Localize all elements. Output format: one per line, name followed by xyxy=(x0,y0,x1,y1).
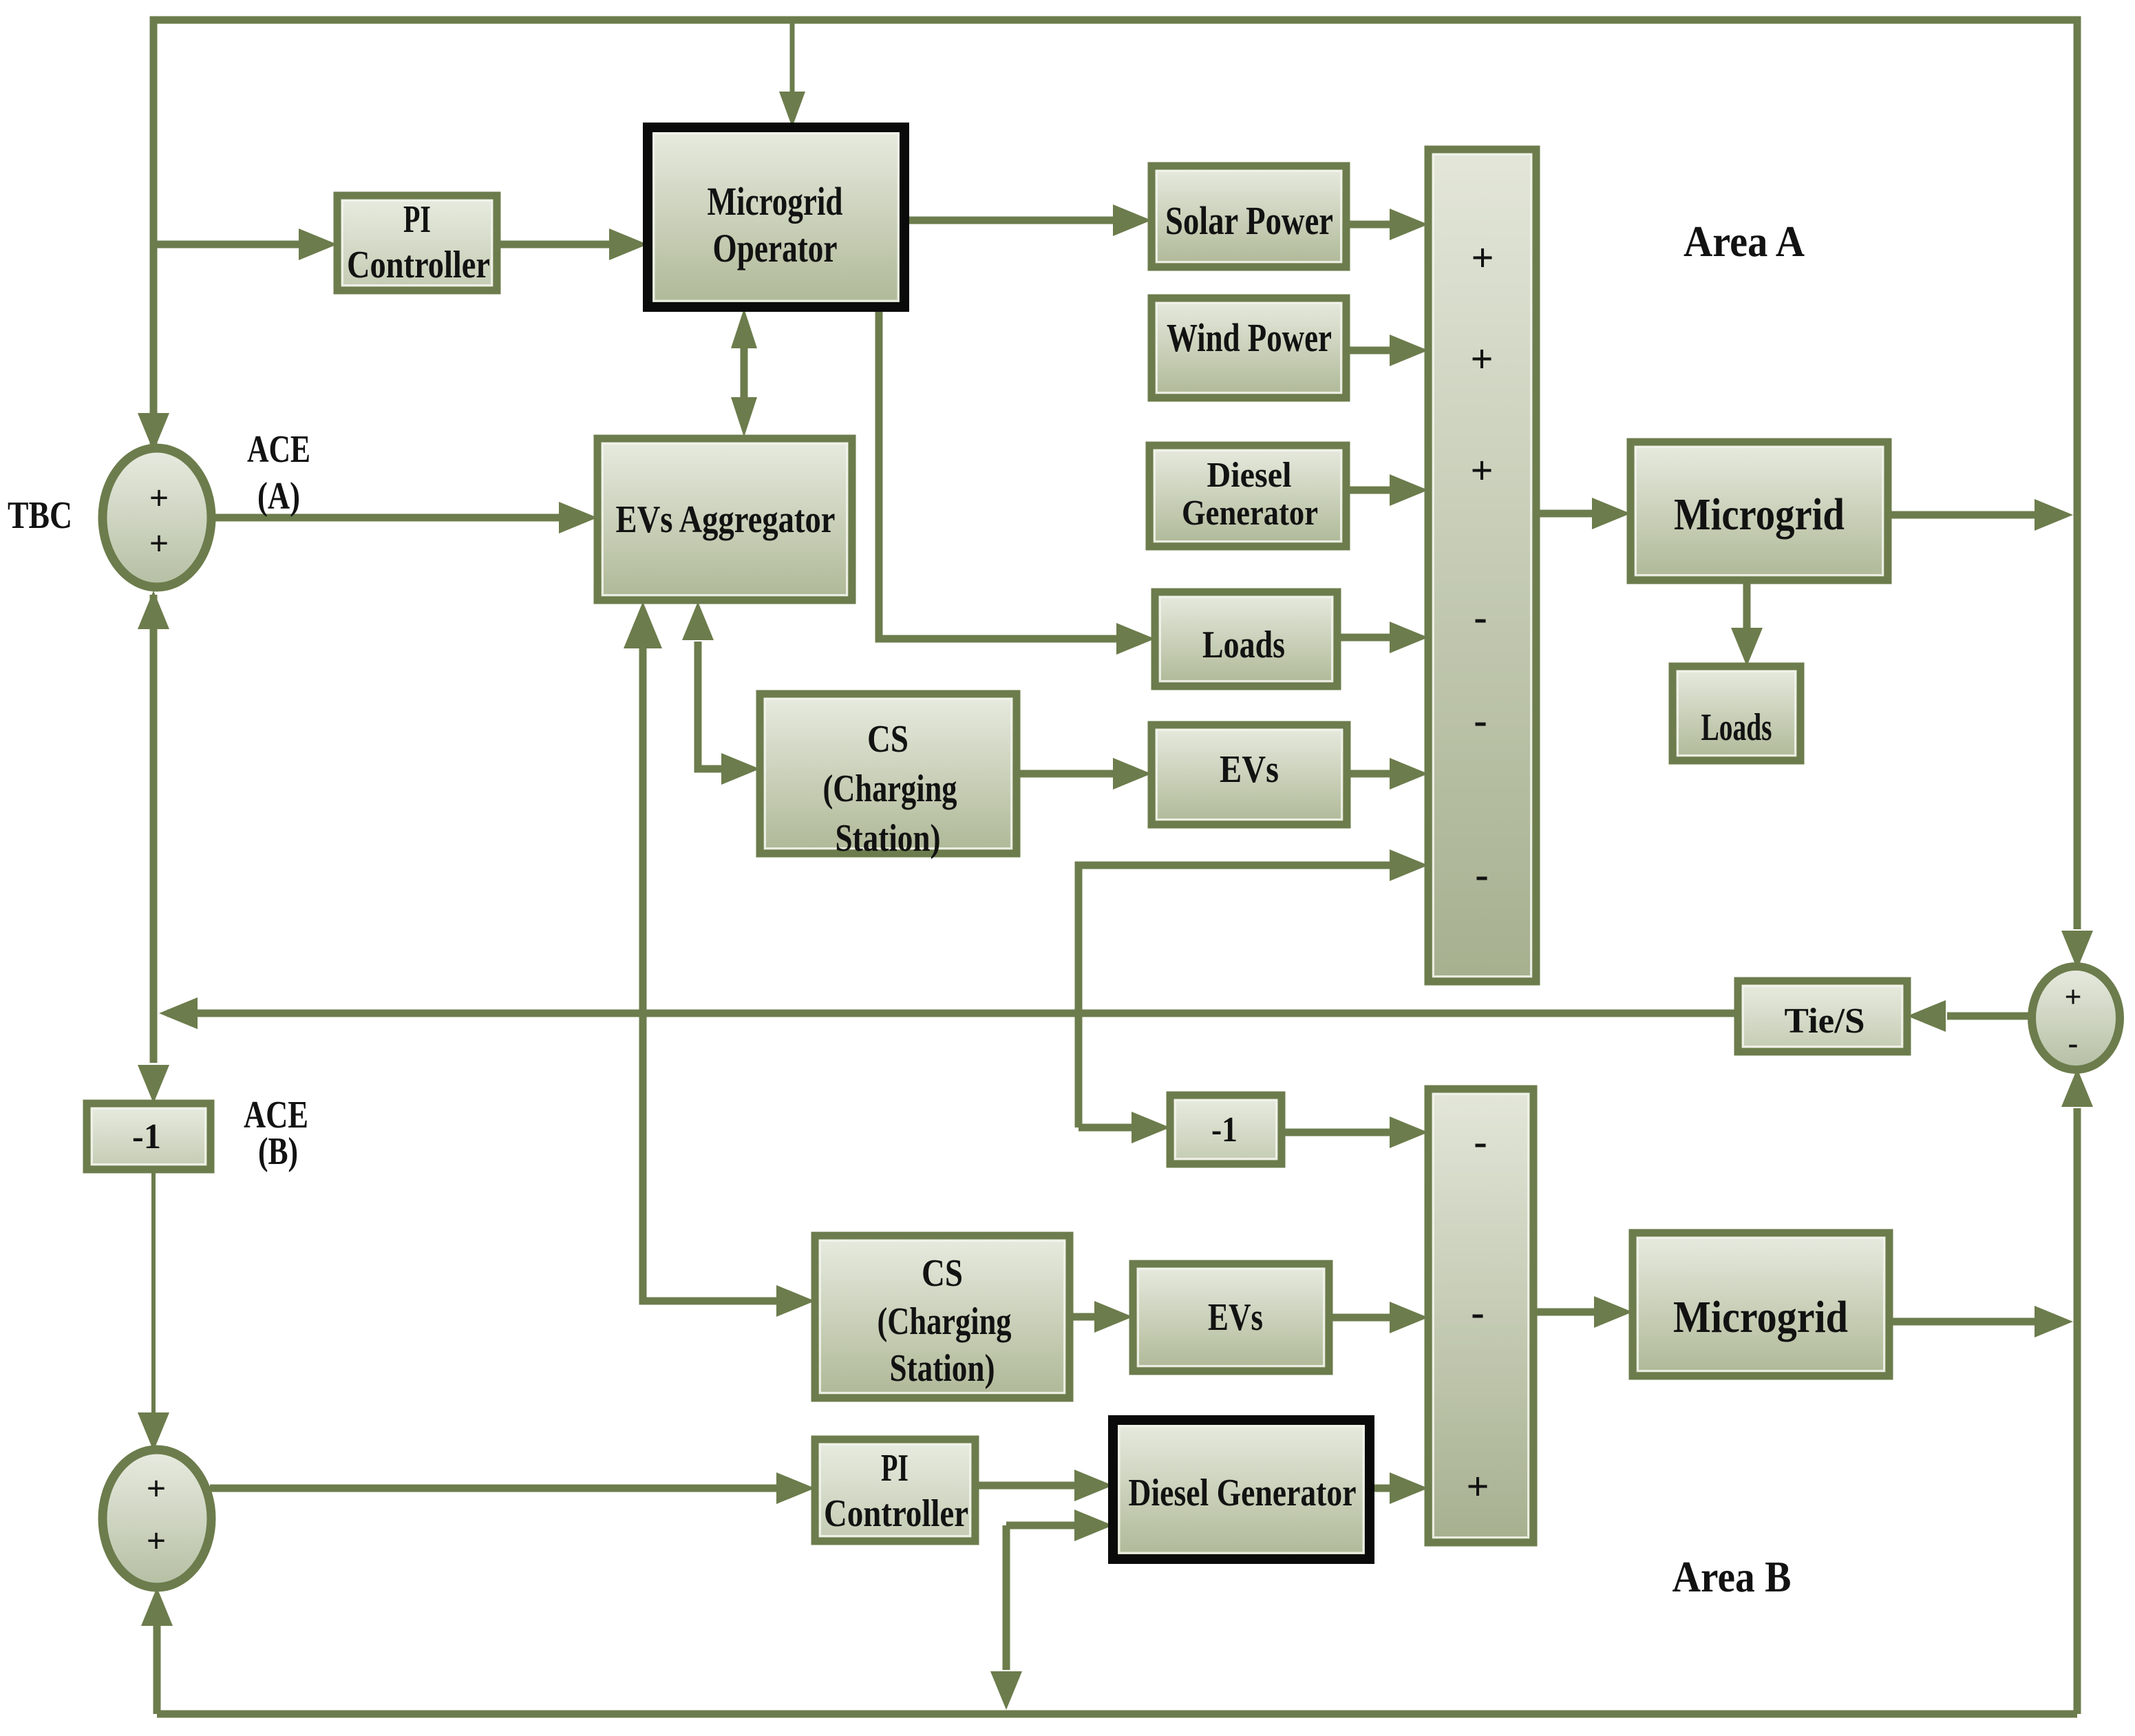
wire right sum to Tie/S xyxy=(1947,1013,2032,1020)
svg-text:Tie/S: Tie/S xyxy=(1785,1002,1865,1041)
wire ACE(A) sum to EVs Aggregator xyxy=(210,514,560,522)
arrowhead Diesel into summing block A xyxy=(1390,474,1428,506)
svg-text:+: + xyxy=(147,1469,167,1507)
wire outer frequency loop (top + left + right sides) xyxy=(153,20,2077,929)
svg-text:Diesel: Diesel xyxy=(1207,456,1292,495)
svg-text:ACE: ACE xyxy=(247,428,310,471)
wire Microgrid B to right border xyxy=(1889,1318,2036,1326)
svg-text:Generator: Generator xyxy=(1182,494,1318,533)
block EVs A xyxy=(1151,725,1347,825)
arrowhead into Tie/S xyxy=(1907,1000,1946,1032)
arrowhead into Microgrid A xyxy=(1592,498,1631,529)
block Solar Power xyxy=(1151,166,1346,267)
arrowhead up into EVs Aggregator bottom x1014 xyxy=(682,602,714,640)
svg-text:Station): Station) xyxy=(890,1347,995,1390)
arrowhead Microgrid B into right border xyxy=(2035,1306,2073,1337)
svg-text:CS: CS xyxy=(867,718,909,761)
wire Diesel Generator A to summing block A xyxy=(1346,487,1391,494)
svg-text:PI: PI xyxy=(881,1447,909,1490)
arrowhead into PI Controller A xyxy=(299,229,337,260)
arrowhead into CS A xyxy=(721,753,760,785)
wire Microgrid A to right border xyxy=(1888,511,2036,519)
svg-text:Station): Station) xyxy=(836,817,941,860)
svg-text:+: + xyxy=(149,524,169,562)
arrowhead down into ACE B sum xyxy=(138,1412,169,1451)
svg-text:Loads: Loads xyxy=(1202,624,1285,666)
svg-text:Operator: Operator xyxy=(713,226,838,271)
arrowhead Microgrid A into right border xyxy=(2035,499,2073,531)
wire EVs Aggregator to CS A (bidirectional) xyxy=(698,642,723,769)
svg-text:-: - xyxy=(2068,1026,2079,1060)
arrowhead up into right sum bottom xyxy=(2061,1068,2093,1107)
svg-text:(A): (A) xyxy=(257,475,300,518)
arrowhead EVs B into summing block B xyxy=(1390,1302,1428,1333)
wire PI Controller A to Microgrid Operator xyxy=(497,241,610,248)
arrowhead down into right sum top xyxy=(2061,931,2093,969)
arrowhead Wind into summing block A xyxy=(1390,335,1428,366)
arrowhead down into EVs Aggregator top xyxy=(731,397,757,437)
svg-text:+: + xyxy=(2064,980,2081,1014)
wire ACE A sum to -1 left (bidirectional) xyxy=(150,595,158,1063)
arrowhead into Solar Power xyxy=(1113,204,1151,236)
block EVs B xyxy=(1133,1264,1329,1371)
svg-text:Solar Power: Solar Power xyxy=(1165,198,1333,243)
block -1 B xyxy=(1170,1095,1282,1164)
svg-text:PI: PI xyxy=(403,198,431,241)
wire PI Controller B to Diesel Generator B xyxy=(975,1482,1076,1490)
wire summing block B to Microgrid B xyxy=(1533,1309,1595,1316)
wire EVs B to summing block B xyxy=(1329,1314,1391,1322)
arrowhead Diesel Generator B into summing block B xyxy=(1390,1472,1428,1504)
arrowhead down into Loads right xyxy=(1731,628,1763,666)
arrowhead tie feedback into left line xyxy=(159,997,198,1029)
arrowhead into Diesel Generator B input 2 xyxy=(1074,1510,1113,1541)
block Diesel Generator B (black border) xyxy=(1113,1420,1370,1559)
wire CS B to EVs B xyxy=(1070,1313,1096,1321)
svg-text:-: - xyxy=(1475,852,1488,897)
svg-text:-: - xyxy=(1474,698,1487,743)
block Loads A xyxy=(1155,592,1337,686)
node ACE B summing circle xyxy=(103,1450,211,1587)
arrowhead up into ACE B sum bottom xyxy=(141,1587,173,1626)
arrowhead down into bottom line from DG branch xyxy=(990,1671,1022,1710)
wire Solar Power to summing block A xyxy=(1346,221,1391,229)
svg-text:EVs: EVs xyxy=(1220,748,1279,791)
wire Microgrid Operator to EVs Aggregator (bidirectional) xyxy=(741,348,748,397)
arrowhead Loads A into summing block A xyxy=(1390,622,1428,653)
arrowhead into EVs Aggregator left xyxy=(559,502,597,533)
wire Tie/S feedback to left line xyxy=(167,1010,1738,1017)
arrowhead into PI Controller B xyxy=(776,1472,815,1504)
svg-text:(B): (B) xyxy=(258,1130,298,1173)
svg-text:Controller: Controller xyxy=(824,1492,968,1535)
arrowhead into EVs A xyxy=(1113,758,1151,790)
wire Loads A to summing block A xyxy=(1337,634,1391,642)
svg-text:Microgrid: Microgrid xyxy=(708,179,843,224)
arrowhead -1 B into summing block B xyxy=(1390,1116,1428,1148)
svg-text:Microgrid: Microgrid xyxy=(1673,1292,1848,1342)
svg-text:-: - xyxy=(1474,595,1487,639)
arrowhead into -1 B xyxy=(1132,1112,1170,1143)
arrowhead into Microgrid Operator left xyxy=(609,229,648,260)
wire EVs A to summing block A xyxy=(1347,770,1391,778)
arrowhead down into -1 left xyxy=(138,1065,169,1103)
block Microgrid Operator (black border) xyxy=(648,127,904,307)
wire tie feedback branch to -1 B xyxy=(1079,1124,1133,1132)
wire right border lower part xyxy=(2074,1108,2081,1714)
block Diesel Generator A xyxy=(1149,445,1346,547)
arrowhead into Microgrid Operator top xyxy=(779,92,805,127)
wire Diesel Generator B to summing block B xyxy=(1370,1485,1391,1492)
wire -1 B to summing block B xyxy=(1282,1129,1391,1136)
svg-text:+: + xyxy=(147,1521,167,1560)
wire Microgrid Operator to Solar Power xyxy=(904,217,1114,224)
arrowhead into ACE A sum top xyxy=(138,413,169,452)
svg-text:+: + xyxy=(1470,337,1493,381)
svg-text:(Charging: (Charging xyxy=(823,768,957,810)
svg-text:-: - xyxy=(1471,1290,1484,1335)
svg-text:-1: -1 xyxy=(1211,1110,1238,1150)
block Loads right xyxy=(1672,666,1801,761)
block CS Charging Station B xyxy=(815,1236,1070,1398)
svg-text:CS: CS xyxy=(922,1252,963,1295)
svg-text:Wind Power: Wind Power xyxy=(1167,315,1332,360)
wire Microgrid A down to Loads right xyxy=(1743,580,1751,629)
arrowhead tie branch into summing block A xyxy=(1390,849,1428,881)
svg-text:Diesel Generator: Diesel Generator xyxy=(1129,1472,1357,1514)
arrowhead into CS B xyxy=(776,1285,815,1317)
wire tie feedback branch to summing block A xyxy=(1079,865,1391,1128)
wire Microgrid Operator down to Loads A xyxy=(879,307,1118,639)
block EVs Aggregator xyxy=(597,438,852,600)
wire second input into Diesel Generator B xyxy=(1006,1522,1076,1529)
summing block B xyxy=(1428,1089,1533,1543)
arrowhead into Diesel Generator B input 1 xyxy=(1074,1470,1113,1501)
svg-text:(Charging: (Charging xyxy=(878,1300,1012,1343)
svg-text:Microgrid: Microgrid xyxy=(1674,489,1845,540)
svg-text:EVs Aggregator: EVs Aggregator xyxy=(616,498,836,541)
wire ACE B sum to PI Controller B xyxy=(210,1485,778,1492)
node tie-line summing circle xyxy=(2032,966,2120,1070)
arrowhead up into ACE A sum bottom xyxy=(138,591,169,629)
wire top branch down into Microgrid Operator xyxy=(790,20,795,92)
wire Wind Power to summing block A xyxy=(1346,347,1391,354)
wire branch to PI Controller A xyxy=(153,241,300,248)
block Wind Power xyxy=(1151,298,1346,398)
svg-text:Area A: Area A xyxy=(1683,217,1805,266)
block CS Charging Station A xyxy=(760,694,1017,860)
wire -1 left down to ACE B sum xyxy=(151,1169,156,1412)
arrowhead into Microgrid B xyxy=(1594,1296,1633,1328)
svg-text:+: + xyxy=(1466,1464,1489,1509)
svg-text:-: - xyxy=(1474,1119,1487,1164)
svg-text:Loads: Loads xyxy=(1701,706,1772,749)
node ACE A summing circle xyxy=(103,448,211,587)
wire bottom line up into ACE B sum xyxy=(153,1626,161,1714)
summing block A xyxy=(1428,149,1536,982)
block Microgrid A xyxy=(1631,442,1888,580)
block Tie/S xyxy=(1738,981,1907,1052)
wire bottom line xyxy=(157,1711,2077,1718)
arrowhead Solar into summing block A xyxy=(1390,209,1428,240)
svg-text:+: + xyxy=(1470,448,1493,493)
arrowhead up into Microgrid Operator bottom xyxy=(731,308,757,348)
wire EVs Aggregator to CS B (bidirectional) xyxy=(643,642,778,1301)
arrowhead into EVs B xyxy=(1094,1301,1133,1333)
svg-text:Area B: Area B xyxy=(1672,1552,1792,1601)
arrowhead up big into EVs Aggregator bottom x934 xyxy=(624,602,662,648)
svg-text:Controller: Controller xyxy=(347,244,490,286)
arrowhead EVs A into summing block A xyxy=(1390,758,1428,790)
arrowhead into Loads A xyxy=(1116,623,1155,655)
block PI Controller A xyxy=(337,195,497,290)
svg-text:+: + xyxy=(149,478,169,517)
wire summing block A to Microgrid A xyxy=(1536,510,1593,518)
block -1 left xyxy=(87,1103,211,1169)
svg-text:+: + xyxy=(1471,235,1494,280)
svg-text:TBC: TBC xyxy=(8,494,72,537)
svg-text:EVs: EVs xyxy=(1208,1296,1263,1339)
block Microgrid B xyxy=(1633,1233,1889,1376)
wire Diesel Generator B branch down to bottom line xyxy=(1003,1525,1010,1670)
wire CS A to EVs A xyxy=(1017,770,1114,778)
svg-text:-1: -1 xyxy=(132,1117,161,1156)
block PI Controller B xyxy=(815,1439,975,1541)
